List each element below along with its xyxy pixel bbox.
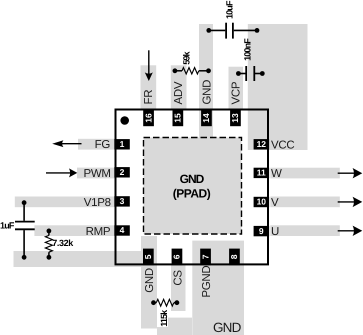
svg-text:RMP: RMP bbox=[86, 226, 111, 238]
pin 2 bbox=[114, 167, 130, 177]
net W trace bbox=[270, 168, 340, 179]
svg-text:PGND: PGND bbox=[201, 266, 213, 298]
net GND trace pin5 bbox=[141, 236, 157, 329]
node GND-115k bbox=[151, 300, 156, 305]
capacitor 100nF bbox=[238, 73, 245, 75]
capacitor 1uF bbox=[23, 203, 25, 221]
svg-text:59k: 59k bbox=[181, 50, 191, 64]
svg-text:GND: GND bbox=[144, 268, 156, 293]
capacitor 10uF bbox=[209, 29, 226, 31]
IC U1 16-pin QFN body bbox=[116, 110, 269, 265]
svg-text:11: 11 bbox=[257, 168, 266, 178]
net FG trace bbox=[78, 139, 115, 150]
svg-text:10: 10 bbox=[257, 197, 267, 207]
node 10uF right bbox=[255, 28, 260, 33]
pin 4 bbox=[114, 225, 130, 235]
resistor 115k bbox=[154, 302, 157, 304]
svg-text:12: 12 bbox=[257, 139, 267, 149]
pin 11 bbox=[254, 168, 270, 178]
arrow into FR bbox=[148, 50, 150, 74]
pin 1 bbox=[114, 139, 130, 149]
svg-text:VCC: VCC bbox=[271, 139, 294, 151]
svg-text:V1P8: V1P8 bbox=[84, 197, 111, 209]
svg-text:FG: FG bbox=[95, 139, 111, 151]
pin 3 bbox=[114, 196, 130, 206]
svg-text:1uF: 1uF bbox=[0, 220, 15, 230]
node 100nF left bbox=[236, 71, 241, 76]
svg-text:7.32k: 7.32k bbox=[52, 238, 74, 248]
svg-text:5: 5 bbox=[143, 254, 153, 259]
svg-text:100nF: 100nF bbox=[243, 38, 253, 61]
pin 5 bbox=[143, 249, 154, 266]
net RMP trace bbox=[34, 225, 115, 236]
arrow out FG bbox=[61, 143, 82, 145]
resistor 59k bbox=[175, 70, 182, 72]
arrow out U bbox=[338, 230, 355, 232]
node 10uF left bbox=[206, 28, 211, 33]
svg-text:V: V bbox=[271, 197, 279, 209]
node RMP-7.32k bbox=[47, 229, 52, 234]
svg-text:W: W bbox=[271, 168, 282, 180]
svg-text:8: 8 bbox=[229, 254, 239, 259]
resistor 7.32k bbox=[48, 231, 50, 236]
net CS trace bbox=[171, 265, 186, 312]
pin 9 bbox=[254, 226, 270, 236]
net U trace bbox=[270, 225, 340, 236]
node V1P8-1uF bbox=[22, 200, 27, 205]
pin 15 bbox=[173, 110, 184, 127]
svg-text:14: 14 bbox=[201, 113, 211, 123]
node CS-115k bbox=[175, 300, 180, 305]
svg-text:4: 4 bbox=[120, 225, 125, 235]
svg-text:9: 9 bbox=[259, 226, 264, 236]
svg-text:2: 2 bbox=[120, 167, 125, 177]
pin 13 bbox=[230, 110, 241, 127]
node 100nF right bbox=[260, 71, 265, 76]
svg-text:PWM: PWM bbox=[83, 168, 110, 180]
net VCP trace bbox=[229, 67, 244, 111]
svg-text:115k: 115k bbox=[159, 309, 169, 327]
svg-text:ADV: ADV bbox=[173, 81, 185, 104]
svg-text:VCP: VCP bbox=[230, 81, 242, 104]
pin 14 bbox=[201, 110, 212, 127]
arrow out W bbox=[338, 172, 355, 174]
net GND trace pin14 to PPAD bbox=[199, 24, 213, 138]
arrow out V bbox=[338, 201, 355, 203]
svg-text:GND: GND bbox=[180, 172, 205, 186]
svg-text:6: 6 bbox=[172, 254, 182, 259]
svg-text:7: 7 bbox=[200, 254, 210, 259]
svg-text:FR: FR bbox=[143, 90, 155, 105]
svg-text:3: 3 bbox=[120, 196, 125, 206]
node ADV-59k bbox=[173, 68, 178, 73]
pin 7 bbox=[200, 249, 211, 266]
net GND fill bottom bbox=[168, 318, 192, 335]
svg-text:16: 16 bbox=[143, 113, 153, 123]
pin 10 bbox=[254, 197, 270, 207]
net V trace bbox=[270, 197, 340, 208]
svg-text:CS: CS bbox=[173, 270, 185, 286]
net PGND plane bbox=[192, 241, 244, 335]
pin 8 bbox=[229, 249, 240, 266]
svg-text:1: 1 bbox=[120, 139, 125, 149]
net GND trace left bbox=[14, 251, 158, 267]
svg-text:15: 15 bbox=[173, 113, 183, 123]
net FR trace bbox=[141, 65, 157, 110]
net PWM trace bbox=[77, 168, 115, 179]
svg-text:U: U bbox=[271, 226, 279, 238]
svg-text:(PPAD): (PPAD) bbox=[173, 186, 211, 200]
svg-text:10uF: 10uF bbox=[225, 0, 235, 19]
arrow into PWM bbox=[46, 172, 71, 174]
node 1uF-GND bbox=[22, 255, 27, 260]
thermal pad GND PPAD bbox=[144, 138, 242, 235]
pin 1 indicator dot bbox=[120, 116, 129, 125]
svg-text:GND: GND bbox=[201, 80, 213, 105]
pin 6 bbox=[172, 249, 183, 266]
pin 12 bbox=[254, 139, 270, 149]
net ADV trace bbox=[171, 65, 187, 110]
net V1P8 trace bbox=[15, 197, 115, 208]
node 7.32k-GND bbox=[47, 255, 52, 260]
net VCC plane bbox=[248, 24, 308, 150]
svg-text:13: 13 bbox=[230, 113, 240, 123]
svg-text:GND: GND bbox=[213, 320, 242, 335]
pin 16 bbox=[143, 110, 154, 127]
node GND-59k bbox=[206, 68, 211, 73]
